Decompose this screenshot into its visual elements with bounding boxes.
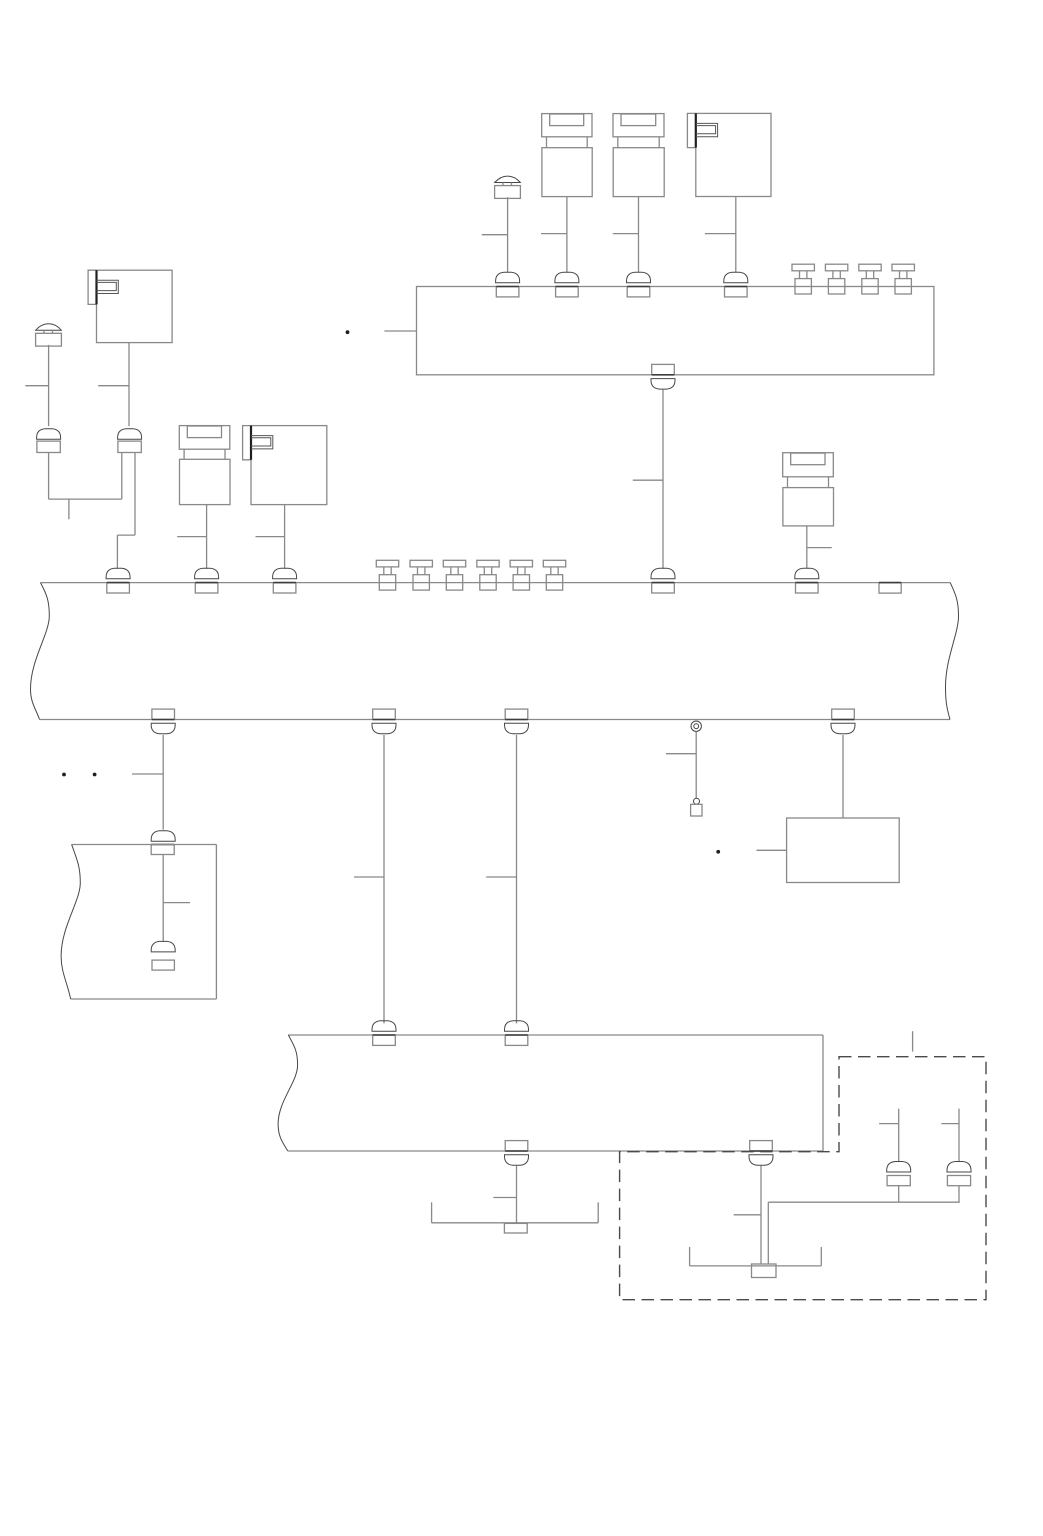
splice dot D4 [716,850,720,854]
splice dot D2 [62,773,66,777]
wire G1 down [695,731,697,798]
B2 torn right edge [946,583,959,720]
ground bar GB2 [690,1247,822,1266]
wire F3 to main bus [284,505,286,569]
stub wire below link [68,499,70,519]
lamp symbol E1 [495,176,521,198]
terminal T1 (ring) [691,798,702,816]
wire CP5 to link [958,1185,960,1202]
relay component K1 [542,114,593,197]
branch tick on CN19 wire [493,1197,516,1199]
wire CP1 to CP2 link [49,453,122,500]
splice dot near B1 [346,330,350,334]
fitting V4 on B1 [892,264,914,294]
relay component K2 [613,114,664,197]
wire F1 to connector [735,197,737,273]
connector pair CP5 [947,1162,971,1186]
wire CP2 to main bus [117,453,135,569]
branch tick on CN20 wire [734,1214,761,1216]
wire CN12 down [162,735,164,830]
connector CN17 on B3 top [372,1021,396,1046]
connector CN5 on B1 bottom [651,364,675,389]
box BX1 (torn sheet) [61,845,216,1000]
fitting V9 on B2 [510,560,532,590]
B3 right edge [822,1035,824,1151]
stub wire into U1 [757,849,787,851]
wire CP4 to link [898,1185,900,1202]
branch tick inside BX1 [163,902,190,904]
connector CN10 on B2 top [795,568,819,593]
connector CN9 on B2 top [651,568,675,593]
connector pair CP4 [887,1162,911,1186]
branch tick on CP4 wire [879,1123,899,1125]
branch tick on E2 wire [25,385,48,387]
wire CN20 down [760,1166,762,1265]
B2 torn left edge [31,583,50,720]
fitting V10 on B2 [543,560,565,590]
branch tick on K2 wire [613,233,639,235]
connector CN16 on box BX1 top [151,831,175,855]
connector CN12 on B2 bottom [151,709,175,734]
branch tick on CN14 wire [486,876,516,878]
connector CN8 on B2 top [273,568,297,593]
wire CN15 down [842,735,844,818]
wire stub above CP4 [898,1109,900,1162]
grommet G1 on B2 bottom [691,721,701,731]
wire link to connectors [768,1201,959,1203]
plain connector CN11 on B2 top [879,583,901,594]
wire CN14 to lower bus [516,735,518,1023]
connector CN6 on B2 top [106,568,130,593]
wire inside BX1 [162,855,164,942]
fitting V6 on B2 [410,560,432,590]
relay component K3 [179,426,230,505]
wire K2 to connector [638,197,640,273]
branch tick on K4 wire [807,547,832,549]
wire E2 down [48,345,50,426]
terminal block on GB1 [504,1223,527,1233]
terminal block on GB2 [752,1264,777,1278]
connector CN20 on B3 bottom [749,1141,773,1166]
connector CN18 on B3 top [505,1021,529,1046]
branch tick on K3 wire [177,536,206,538]
harness bus B1 (upper) [417,287,934,375]
wire CN19 down [516,1166,518,1224]
connector CN2 on B1 top [555,272,579,297]
connector pair CP2 [118,429,142,453]
wire E1 to connector [507,197,509,272]
connector CN15 on B2 bottom [831,709,855,734]
branch tick on E1 wire [482,234,508,236]
second wire to GB2 [767,1202,769,1264]
harness bus B2 bottom edge [40,719,951,721]
wire K1 to connector [566,197,568,273]
branch tick on K1 wire [541,233,567,235]
connector CN3 on B1 top [627,272,651,297]
branch tick on G1 wire [666,753,696,755]
branch tick on CN12 wire [132,773,163,775]
fitting V1 on B1 [792,264,814,294]
wire CN13 to lower bus [383,735,385,1023]
fitting V3 on B1 [859,264,881,294]
wire stub into B1 left edge [384,330,416,332]
fitting V5 on B2 [376,560,398,590]
wire stub above CP5 [958,1109,960,1162]
wire K4 to main bus [806,526,808,569]
fitting V2 on B1 [825,264,847,294]
connector CN14 on B2 bottom [505,709,529,734]
branch tick on F3 wire [256,536,285,538]
wire K3 to main bus [206,505,208,569]
wire F2 down [128,343,130,427]
connector pair CP1 [37,429,61,453]
connector CN4 on B1 top [724,272,748,297]
relay component K4 [783,453,834,526]
lamp symbol E2 [36,324,62,346]
fitting V7 on B2 [443,560,465,590]
stub wire above dashed box [912,1031,914,1051]
fitting V8 on B2 [477,560,499,590]
dashed enclosure [620,1057,986,1300]
harness bus B2 (main) top edge [41,582,951,584]
flag unit F2 [88,270,172,342]
wire CN5 down to main bus [662,389,664,569]
unit box U1 [787,818,900,883]
connector pair CP3 inside BX1 [151,941,175,970]
connector CN1 on B1 top [496,272,520,297]
branch tick on CN5 wire [633,479,663,481]
branch tick on F1 wire [705,233,736,235]
connector CN7 on B2 top [195,568,219,593]
flag unit F3 [243,426,327,505]
flag unit F1 [687,113,771,196]
branch tick on F2 wire [98,385,129,387]
B3 bottom edge [288,1150,823,1152]
harness bus B3 (lower) top edge [288,1034,823,1036]
ground bar GB1 [432,1202,599,1223]
branch tick on CN13 wire [354,876,384,878]
connector CN19 on B3 bottom [505,1141,529,1166]
connector CN13 on B2 bottom [372,709,396,734]
B3 torn left edge [278,1035,298,1151]
splice dot D3 [93,773,97,777]
branch tick on CP5 wire [941,1123,959,1125]
